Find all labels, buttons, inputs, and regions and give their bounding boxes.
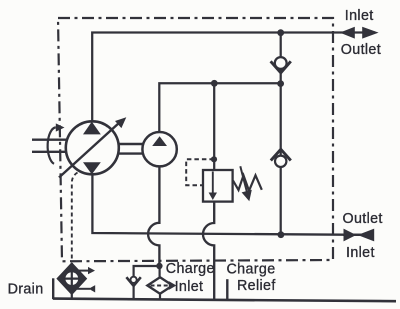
svg-text:Relief: Relief [237, 278, 276, 294]
svg-text:Charge: Charge [227, 261, 276, 277]
svg-text:Inlet: Inlet [346, 245, 375, 261]
svg-text:Inlet: Inlet [175, 279, 204, 295]
svg-text:Drain: Drain [8, 282, 44, 298]
svg-text:Outlet: Outlet [341, 42, 381, 58]
svg-text:Charge: Charge [166, 261, 215, 277]
svg-text:Inlet: Inlet [345, 8, 374, 24]
svg-text:Outlet: Outlet [343, 211, 383, 227]
